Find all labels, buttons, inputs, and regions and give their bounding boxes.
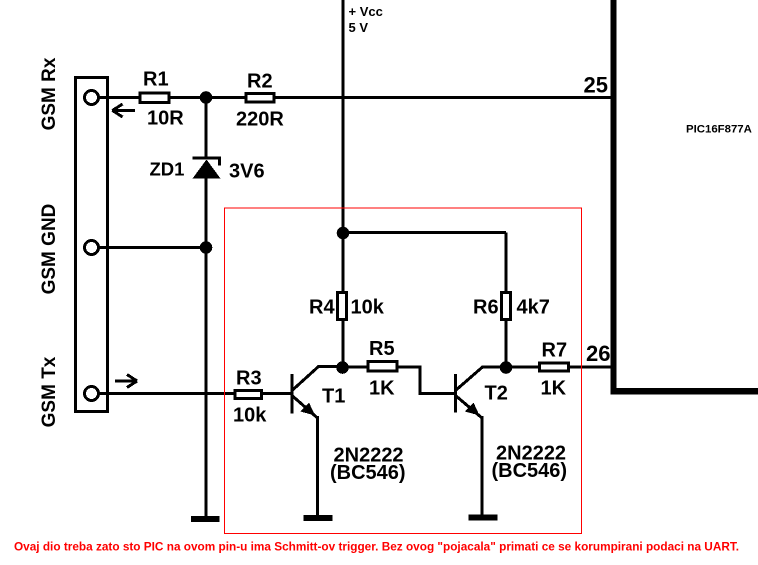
node T1 collector junction dot <box>336 361 349 374</box>
connector J1 (GSM header) <box>76 78 108 412</box>
svg-text:R2: R2 <box>247 71 273 93</box>
svg-text:5 V: 5 V <box>349 20 369 35</box>
wire R7 to PIC pin 26 <box>567 366 614 369</box>
resistor R2 <box>246 94 274 103</box>
svg-text:4k7: 4k7 <box>517 297 550 319</box>
wire Rx row: pin to R1 <box>99 96 141 99</box>
svg-text:GSM Rx: GSM Rx <box>39 57 60 130</box>
svg-text:R3: R3 <box>236 368 262 390</box>
arrowhead T1 emitter <box>301 403 316 416</box>
wire GSM Tx pin to R3 <box>99 392 236 395</box>
wire R6 to T2 collector node <box>505 319 508 368</box>
svg-text:R5: R5 <box>369 338 395 360</box>
svg-text:(BC546): (BC546) <box>330 462 406 484</box>
svg-text:3V6: 3V6 <box>229 161 265 183</box>
wire R2 to PIC pin 25 <box>272 96 614 99</box>
resistor R7 <box>540 363 569 371</box>
arrowhead T2 emitter <box>465 403 480 416</box>
wire R3 to T1 base <box>260 392 291 395</box>
svg-text:26: 26 <box>586 341 610 366</box>
svg-text:25: 25 <box>584 73 608 98</box>
wire Vcc to R4 <box>342 233 345 294</box>
resistor R4 <box>338 293 347 320</box>
wire R1 to R2 through node A <box>169 96 246 99</box>
svg-text:1K: 1K <box>369 378 395 400</box>
power +Vcc rail <box>342 0 345 234</box>
svg-text:GSM Tx: GSM Tx <box>39 356 60 427</box>
node T2 collector junction dot <box>500 361 513 374</box>
svg-text:GSM GND: GSM GND <box>39 204 60 295</box>
ground (ZD1) <box>191 516 220 522</box>
svg-text:10R: 10R <box>147 108 184 130</box>
wire zener to GND rail <box>205 178 208 516</box>
IC U1 PIC16F877A outline <box>611 0 617 395</box>
wire R4 to T1 collector node <box>342 319 345 368</box>
wire R5 to T2 base (step) <box>396 367 455 394</box>
resistor R3 <box>235 391 262 399</box>
zener diode ZD1 <box>193 158 222 179</box>
svg-text:Ovaj dio treba zato sto PIC na: Ovaj dio treba zato sto PIC na ovom pin-… <box>14 540 739 554</box>
svg-text:PIC16F877A: PIC16F877A <box>686 124 752 136</box>
svg-text:ZD1: ZD1 <box>150 159 185 180</box>
svg-text:R1: R1 <box>143 69 169 91</box>
ground (T2 emitter) <box>469 515 498 521</box>
svg-text:T1: T1 <box>322 386 345 408</box>
svg-text:+ Vcc: + Vcc <box>349 4 383 19</box>
arrow left (Rx direction) <box>112 104 135 117</box>
node Vcc junction dot <box>337 227 350 240</box>
wire Vcc junction to R6 branch <box>343 231 506 234</box>
transistor T1 <box>292 367 342 516</box>
red annotation box <box>225 208 582 534</box>
node GND junction dot <box>200 241 213 254</box>
wire GSM GND pin to rail <box>99 246 207 249</box>
svg-text:R6: R6 <box>473 297 499 319</box>
arrow right (Tx direction) <box>115 375 137 388</box>
resistor R5 <box>368 362 397 372</box>
node GSM GND pin circle <box>85 241 99 255</box>
ground (T1 emitter) <box>304 515 333 521</box>
wire node A down to zener <box>205 98 208 159</box>
node GSM Tx pin circle <box>85 387 99 401</box>
svg-text:10k: 10k <box>233 405 267 427</box>
svg-text:T2: T2 <box>485 383 508 405</box>
svg-text:R4: R4 <box>309 297 335 319</box>
svg-text:(BC546): (BC546) <box>492 460 568 482</box>
node GSM Rx pin circle <box>85 91 99 105</box>
svg-text:10k: 10k <box>351 297 385 319</box>
svg-text:220R: 220R <box>236 109 284 131</box>
svg-text:R7: R7 <box>542 340 568 362</box>
resistor R6 <box>502 293 511 320</box>
wire down to R6 <box>505 233 508 295</box>
wire T1 collector node to R5 <box>342 366 370 369</box>
svg-text:1K: 1K <box>541 378 567 400</box>
transistor T2 <box>456 367 507 515</box>
wire T2 collector node to R7 <box>506 366 541 369</box>
node A junction dot (R1/R2/ZD1) <box>200 91 213 104</box>
resistor R1 <box>140 93 169 103</box>
